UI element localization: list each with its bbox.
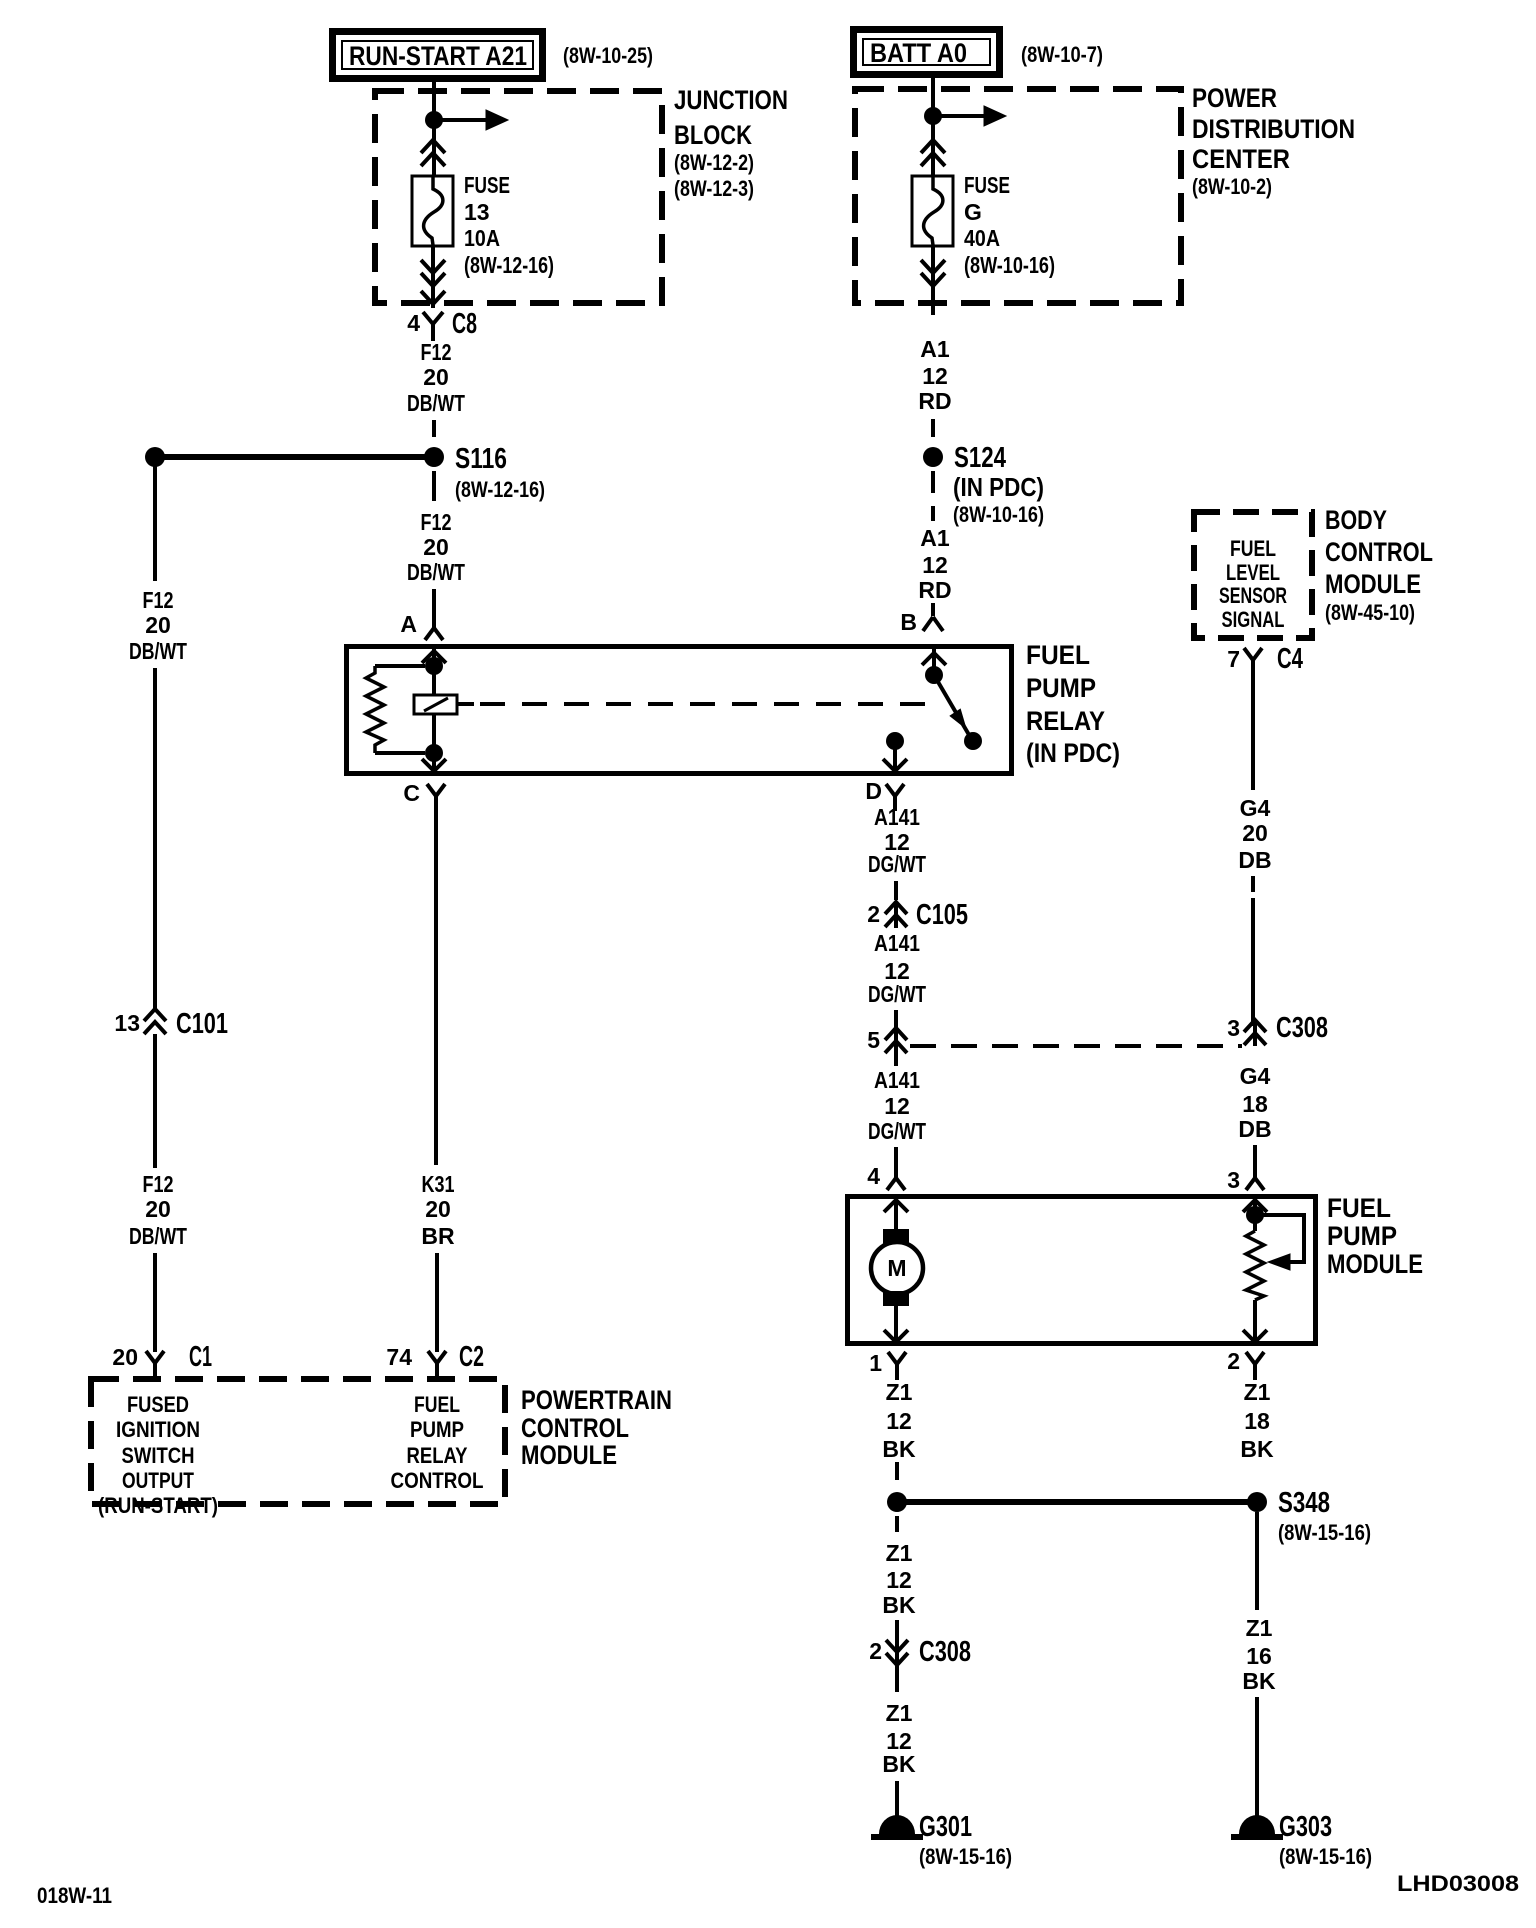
svg-text:4: 4 xyxy=(867,1163,880,1189)
svg-text:(8W-15-16): (8W-15-16) xyxy=(919,1844,1012,1869)
node relay switch pivot dot xyxy=(925,666,943,684)
wire label F12 20 DB/WT (above S116) xyxy=(407,339,465,416)
connector pin 1 below pump xyxy=(869,1350,906,1380)
fuel pump module box xyxy=(848,1197,1316,1344)
svg-text:40A: 40A xyxy=(964,225,1000,251)
wire relay pin C to PCM xyxy=(434,796,438,1165)
wire to splice S116 xyxy=(432,420,436,437)
svg-text:FUSE: FUSE xyxy=(964,172,1010,198)
wire relay pin A internal xyxy=(432,649,436,695)
svg-text:BK: BK xyxy=(882,1436,916,1462)
svg-text:RELAY: RELAY xyxy=(1026,706,1105,736)
wire splice S348 crossbar xyxy=(897,1499,1257,1505)
svg-text:(RUN-START): (RUN-START) xyxy=(98,1493,218,1518)
wire C105 to C308 level xyxy=(894,1010,898,1028)
connector C308 pin 5 (left half) xyxy=(867,1027,907,1054)
relay switch blade xyxy=(934,675,972,740)
svg-text:3: 3 xyxy=(1227,1167,1240,1193)
svg-text:(IN PDC): (IN PDC) xyxy=(953,472,1044,502)
wire to ground G303 xyxy=(1255,1697,1259,1818)
svg-text:DB: DB xyxy=(1238,847,1271,873)
wire to fuel pump module pin 3 xyxy=(1253,1145,1257,1178)
relay coil control dashed line xyxy=(457,702,474,706)
svg-text:C4: C4 xyxy=(1277,643,1303,675)
svg-text:PUMP: PUMP xyxy=(410,1417,464,1442)
svg-text:A: A xyxy=(400,611,417,637)
svg-text:BR: BR xyxy=(421,1223,455,1249)
svg-text:MODULE: MODULE xyxy=(1327,1249,1423,1279)
svg-text:SENSOR: SENSOR xyxy=(1219,583,1287,608)
svg-text:Z1: Z1 xyxy=(886,1540,913,1566)
connector C101 pin 13 xyxy=(114,1008,228,1040)
wire label F12 20 DB/WT (left column lower) xyxy=(129,1171,187,1249)
svg-text:DG/WT: DG/WT xyxy=(868,1118,926,1144)
svg-text:20: 20 xyxy=(423,534,449,560)
pin arrow down at pump pin 2 xyxy=(1243,1330,1267,1342)
svg-text:BODY: BODY xyxy=(1325,505,1387,535)
svg-text:(8W-10-25): (8W-10-25) xyxy=(563,43,653,68)
node relay switch contact dot xyxy=(964,732,982,750)
wire C4 down xyxy=(1251,676,1255,790)
svg-text:POWERTRAIN: POWERTRAIN xyxy=(521,1385,672,1415)
svg-text:FUEL: FUEL xyxy=(1327,1193,1391,1223)
svg-text:G4: G4 xyxy=(1240,795,1271,821)
wire to fuel pump module pin 4 xyxy=(894,1046,898,1178)
svg-text:S116: S116 xyxy=(455,443,507,475)
svg-text:F12: F12 xyxy=(143,1171,174,1197)
connector pin A of fuel pump relay xyxy=(400,611,443,640)
fuse G 40A xyxy=(912,176,953,246)
svg-text:20: 20 xyxy=(1242,820,1268,846)
label BODY CONTROL MODULE xyxy=(1325,505,1433,625)
fuel level sensor resistor xyxy=(1246,1231,1264,1300)
svg-text:LEVEL: LEVEL xyxy=(1226,560,1280,585)
svg-text:(8W-10-16): (8W-10-16) xyxy=(953,502,1044,527)
label FUEL LEVEL SENSOR SIGNAL xyxy=(1219,536,1287,632)
svg-text:MODULE: MODULE xyxy=(1325,569,1421,599)
wire label Z1 12 BK (below C308 pin 2) xyxy=(882,1700,916,1777)
svg-text:Z1: Z1 xyxy=(886,1379,913,1405)
label JUNCTION BLOCK xyxy=(674,85,788,201)
svg-text:SWITCH: SWITCH xyxy=(122,1443,195,1468)
svg-text:FUEL: FUEL xyxy=(414,1392,460,1417)
terminal chevrons below fuse G xyxy=(921,260,945,286)
wire left column from S116 branch down xyxy=(153,457,157,581)
svg-text:(8W-10-2): (8W-10-2) xyxy=(1192,174,1272,199)
svg-text:Z1: Z1 xyxy=(1246,1615,1273,1641)
wire label A1 12 RD (below S124) xyxy=(918,525,951,603)
svg-text:18: 18 xyxy=(1244,1408,1270,1434)
wire label G4 20 DB xyxy=(1238,795,1271,873)
svg-text:CONTROL: CONTROL xyxy=(391,1468,484,1493)
node relay coil bottom dot xyxy=(425,744,443,762)
junction block dashed border xyxy=(375,91,662,303)
label FUSE G 40A xyxy=(964,172,1055,278)
svg-text:A141: A141 xyxy=(874,1067,920,1093)
powertrain control module dashed border xyxy=(91,1379,505,1504)
svg-text:DISTRIBUTION: DISTRIBUTION xyxy=(1192,114,1355,144)
svg-text:A1: A1 xyxy=(920,336,950,362)
svg-text:LHD03008: LHD03008 xyxy=(1397,1871,1519,1896)
svg-text:C1: C1 xyxy=(189,1341,212,1373)
svg-text:RD: RD xyxy=(918,388,951,414)
connector C2 pin 74 xyxy=(386,1341,484,1379)
sensor wiper arm xyxy=(1255,1215,1304,1270)
svg-text:S124: S124 xyxy=(954,442,1006,474)
splice S124 xyxy=(923,447,943,467)
svg-text:(8W-12-16): (8W-12-16) xyxy=(464,252,554,278)
wire label Z1 12 BK (below pump pin 1) xyxy=(882,1379,916,1462)
wire to splice S124 xyxy=(931,419,935,437)
node left branch dot xyxy=(145,447,165,467)
wire D to C105 xyxy=(894,881,898,900)
wire sensor to pump pin 2 xyxy=(1253,1300,1257,1342)
svg-text:(8W-10-16): (8W-10-16) xyxy=(964,252,1055,278)
wire to C308 pin 2 xyxy=(895,1620,899,1640)
svg-text:20: 20 xyxy=(423,364,449,390)
wire BATT A0 to fuse G xyxy=(931,74,935,176)
svg-text:10A: 10A xyxy=(464,225,500,251)
svg-text:20: 20 xyxy=(145,1196,171,1222)
svg-text:FUSED: FUSED xyxy=(127,1392,189,1417)
svg-text:(8W-15-16): (8W-15-16) xyxy=(1279,1844,1372,1869)
svg-text:K31: K31 xyxy=(422,1171,455,1197)
svg-text:18: 18 xyxy=(1242,1091,1268,1117)
svg-text:FUEL: FUEL xyxy=(1026,640,1090,670)
wire label A141 12 DG/WT (below C105) xyxy=(868,930,926,1007)
node sensor top dot xyxy=(1246,1206,1264,1224)
label FUSED IGNITION SWITCH OUTPUT (RUN-START) xyxy=(98,1392,218,1518)
svg-text:CONTROL: CONTROL xyxy=(521,1413,629,1443)
svg-text:A1: A1 xyxy=(920,525,950,551)
svg-text:SIGNAL: SIGNAL xyxy=(1222,607,1285,632)
svg-text:13: 13 xyxy=(464,199,490,225)
svg-text:Z1: Z1 xyxy=(886,1700,913,1726)
connector C105 pin 2 xyxy=(867,899,968,931)
connector pin C of fuel pump relay xyxy=(403,780,445,806)
svg-text:F12: F12 xyxy=(143,587,174,613)
motor M1 fuel pump xyxy=(871,1229,923,1306)
svg-text:G301: G301 xyxy=(919,1811,972,1843)
wire below S348 left xyxy=(895,1516,899,1538)
svg-text:20: 20 xyxy=(145,612,171,638)
svg-text:5: 5 xyxy=(867,1027,880,1053)
wire fuse 13 to connector C8 xyxy=(431,246,435,308)
svg-text:Z1: Z1 xyxy=(1244,1379,1271,1405)
svg-text:PUMP: PUMP xyxy=(1026,673,1096,703)
svg-text:RD: RD xyxy=(918,577,951,603)
label FUEL PUMP RELAY (IN PDC) xyxy=(1026,640,1120,768)
splice S348 right dot xyxy=(1247,1492,1267,1512)
svg-text:12: 12 xyxy=(884,1093,910,1119)
wire motor to pump pin 1 xyxy=(894,1306,898,1342)
wire to ground G301 xyxy=(895,1781,899,1818)
svg-text:BK: BK xyxy=(882,1751,916,1777)
svg-text:C308: C308 xyxy=(1276,1012,1328,1044)
svg-text:PUMP: PUMP xyxy=(1327,1221,1397,1251)
svg-text:RELAY: RELAY xyxy=(407,1443,468,1468)
svg-text:13: 13 xyxy=(114,1010,140,1036)
pin arrow up at relay pin A xyxy=(422,651,446,663)
svg-text:(8W-12-16): (8W-12-16) xyxy=(455,477,545,502)
svg-text:CENTER: CENTER xyxy=(1192,144,1290,174)
connector C308 dashed line xyxy=(910,1044,1242,1048)
connector C1 pin 20 xyxy=(112,1341,212,1379)
svg-text:DB/WT: DB/WT xyxy=(407,559,465,585)
connector pin B of fuel pump relay xyxy=(900,609,943,635)
svg-text:2: 2 xyxy=(1227,1348,1240,1374)
connector pin 4 of fuel pump module xyxy=(867,1163,905,1190)
svg-text:7: 7 xyxy=(1227,646,1240,672)
node relay pin D dot xyxy=(886,732,904,750)
terminal chevrons above fuse G xyxy=(921,140,945,166)
svg-text:DB/WT: DB/WT xyxy=(129,638,187,664)
arrow to other PDC circuits xyxy=(933,114,985,118)
svg-text:4: 4 xyxy=(407,310,420,336)
svg-text:G4: G4 xyxy=(1240,1063,1271,1089)
terminal chevrons above fuse 13 xyxy=(421,140,445,166)
svg-text:DB/WT: DB/WT xyxy=(129,1223,187,1249)
svg-text:12: 12 xyxy=(922,552,948,578)
wire label Z1 18 BK (below pump pin 2) xyxy=(1240,1379,1274,1462)
svg-text:C101: C101 xyxy=(176,1008,228,1040)
wire to splice S348 (left) xyxy=(895,1462,899,1482)
svg-text:BLOCK: BLOCK xyxy=(674,120,752,150)
wire fuel level sensor feed xyxy=(1253,1199,1257,1231)
svg-text:A141: A141 xyxy=(874,930,920,956)
svg-text:3: 3 xyxy=(1227,1015,1240,1041)
relay K1 fuel pump relay box xyxy=(347,647,1012,774)
svg-text:BATT A0: BATT A0 xyxy=(870,38,967,68)
svg-text:C2: C2 xyxy=(459,1341,484,1373)
wire fuse G down through PDC border xyxy=(931,246,935,315)
svg-text:A141: A141 xyxy=(874,804,920,830)
svg-text:DG/WT: DG/WT xyxy=(868,981,926,1007)
node splice dot in PDC xyxy=(924,107,942,125)
fuse 13 10A xyxy=(412,176,453,246)
svg-text:B: B xyxy=(900,609,917,635)
wire label G4 18 DB (below C308 pin 3) xyxy=(1238,1063,1271,1142)
wire label F12 20 DB/WT (left column upper) xyxy=(129,587,187,664)
svg-text:MODULE: MODULE xyxy=(521,1440,617,1470)
connector C4 pin 7 xyxy=(1227,643,1303,676)
wire label A1 12 RD (above S124) xyxy=(918,336,951,414)
pin arrow up at relay pin B xyxy=(922,653,946,665)
svg-text:(8W-45-10): (8W-45-10) xyxy=(1325,600,1415,625)
svg-text:G303: G303 xyxy=(1279,1811,1332,1843)
svg-text:(8W-12-3): (8W-12-3) xyxy=(674,176,754,201)
label FUEL PUMP MODULE xyxy=(1327,1193,1423,1279)
wire left column to C101 xyxy=(153,668,157,1010)
svg-text:C: C xyxy=(403,780,420,806)
svg-text:RUN-START A21: RUN-START A21 xyxy=(349,41,527,71)
pin arrow down at relay pin D xyxy=(883,759,907,771)
svg-text:D: D xyxy=(865,778,882,804)
ground G303 xyxy=(1231,1811,1372,1869)
wire branch from S116 to left column xyxy=(155,454,434,460)
svg-text:2: 2 xyxy=(869,1638,882,1664)
wire RUN-START A21 to fuse 13 xyxy=(432,82,436,176)
svg-text:FUEL: FUEL xyxy=(1230,536,1276,561)
connector pin D of fuel pump relay xyxy=(865,778,904,811)
node relay coil top dot xyxy=(425,657,443,675)
relay coil xyxy=(414,695,457,714)
splice S348 left dot xyxy=(887,1492,907,1512)
svg-text:JUNCTION: JUNCTION xyxy=(674,85,788,115)
label POWERTRAIN CONTROL MODULE xyxy=(521,1385,672,1470)
body control module dashed border xyxy=(1194,512,1312,638)
svg-text:20: 20 xyxy=(112,1344,138,1370)
wire label A141 12 DG/WT (below C308 pin 5) xyxy=(868,1067,926,1144)
pin arrow down at relay pin C xyxy=(422,759,446,771)
svg-text:12: 12 xyxy=(886,1408,912,1434)
wire K31 to connector C2 xyxy=(435,1253,439,1352)
svg-text:2: 2 xyxy=(867,901,880,927)
terminal box BATT A0 xyxy=(854,30,1000,75)
connector pin 3 of fuel pump module xyxy=(1227,1167,1264,1193)
svg-text:OUTPUT: OUTPUT xyxy=(122,1468,194,1493)
svg-text:S348: S348 xyxy=(1278,1487,1330,1519)
wire S124 to relay pin B xyxy=(931,603,935,616)
svg-text:1: 1 xyxy=(869,1350,882,1376)
svg-text:FUSE: FUSE xyxy=(464,172,510,198)
svg-text:12: 12 xyxy=(886,1567,912,1593)
wire S116 to relay pin A xyxy=(432,589,436,628)
power distribution center dashed border xyxy=(855,89,1181,303)
svg-text:C105: C105 xyxy=(916,899,968,931)
label S348 xyxy=(1278,1487,1371,1545)
wire BCM column to C308 xyxy=(1251,876,1255,892)
svg-text:BK: BK xyxy=(1242,1668,1276,1694)
wire below S348 right xyxy=(1255,1512,1259,1610)
wire left column to connector C1 xyxy=(153,1253,157,1352)
svg-text:20: 20 xyxy=(425,1196,451,1222)
wire relay pin D internal xyxy=(893,741,897,771)
svg-text:CONTROL: CONTROL xyxy=(1325,537,1433,567)
wire relay coil to pin C internal xyxy=(432,714,436,771)
node splice dot in junction block xyxy=(425,111,443,129)
svg-text:POWER: POWER xyxy=(1192,83,1277,113)
svg-text:F12: F12 xyxy=(421,509,452,535)
svg-text:DB: DB xyxy=(1238,1116,1271,1142)
svg-text:C8: C8 xyxy=(452,308,477,340)
connector pin 2 below pump xyxy=(1227,1348,1264,1380)
svg-text:(8W-15-16): (8W-15-16) xyxy=(1278,1520,1371,1545)
label POWER DISTRIBUTION CENTER xyxy=(1192,83,1355,199)
svg-text:018W-11: 018W-11 xyxy=(37,1883,112,1908)
svg-text:BK: BK xyxy=(1240,1436,1274,1462)
svg-text:DB/WT: DB/WT xyxy=(407,390,465,416)
label FUSE 13 10A xyxy=(464,172,554,278)
wire fuel pump motor feed xyxy=(894,1199,898,1232)
svg-text:(8W-10-7): (8W-10-7) xyxy=(1021,42,1103,67)
terminal chevrons below fuse 13 xyxy=(421,260,445,286)
svg-text:(IN PDC): (IN PDC) xyxy=(1026,738,1120,768)
svg-text:C308: C308 xyxy=(919,1636,971,1668)
wire label Z1 12 BK (above C308 pin 2) xyxy=(882,1540,916,1618)
wire label F12 20 DB/WT (below S116) xyxy=(407,509,465,585)
wire below S124 xyxy=(931,471,935,521)
wire below S116 xyxy=(432,471,436,501)
svg-text:74: 74 xyxy=(386,1344,412,1370)
pin arrow up at pump pin 3 xyxy=(1243,1200,1267,1212)
pin arrow up at pump pin 4 xyxy=(884,1200,908,1212)
svg-text:G: G xyxy=(964,199,982,225)
wire relay pin B internal xyxy=(932,649,936,673)
wire left column C101 to label xyxy=(153,1034,157,1168)
svg-text:M: M xyxy=(887,1255,906,1281)
wire label Z1 16 BK xyxy=(1242,1615,1276,1694)
svg-text:BK: BK xyxy=(882,1592,916,1618)
wire label K31 20 BR xyxy=(421,1171,455,1249)
svg-text:(8W-12-2): (8W-12-2) xyxy=(674,150,754,175)
resistor in relay (parallel with coil) xyxy=(366,666,425,753)
pin arrow down at pump pin 1 xyxy=(884,1330,908,1342)
svg-text:DG/WT: DG/WT xyxy=(868,851,926,877)
terminal box RUN-START A21 xyxy=(333,32,543,79)
svg-text:12: 12 xyxy=(922,363,948,389)
svg-text:IGNITION: IGNITION xyxy=(116,1417,200,1442)
relay switch blade arrowhead xyxy=(951,710,965,727)
ground G301 xyxy=(871,1811,1012,1869)
connector C308 pin 3 (right half) xyxy=(1227,1012,1328,1046)
label FUEL PUMP RELAY CONTROL xyxy=(391,1392,484,1493)
svg-text:16: 16 xyxy=(1246,1643,1272,1669)
svg-text:F12: F12 xyxy=(421,339,452,365)
splice S116 xyxy=(424,447,444,467)
connector C308 pin 2 xyxy=(869,1636,971,1692)
wire label A141 12 DG/WT (below relay) xyxy=(868,804,926,877)
arrow to other JB circuits xyxy=(434,118,487,122)
connector C8 pin 4 xyxy=(407,291,477,341)
